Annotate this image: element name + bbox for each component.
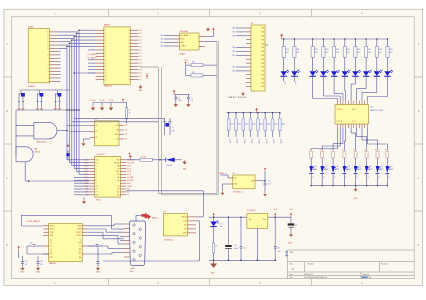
svg-text:B: B [418,109,420,113]
svg-text:C11: C11 [244,248,247,250]
svg-text:File:: File: [290,277,294,279]
svg-text:R2OUT: R2OUT [50,229,55,231]
svg-text:2: 2 [96,168,97,170]
svg-text:T1: T1 [96,192,98,194]
svg-text:7: 7 [96,183,97,185]
svg-text:D17: D17 [390,166,393,168]
svg-text:DB7: DB7 [232,55,235,57]
svg-text:10: 10 [47,48,49,50]
svg-text:D: D [6,243,8,247]
svg-text:R20: R20 [309,150,312,152]
svg-text:R18: R18 [379,49,382,51]
svg-text:XL: XL [96,189,98,191]
svg-text:Y1: Y1 [172,127,174,129]
svg-text:R23: R23 [342,150,345,152]
svg-text:P11: P11 [125,130,128,132]
svg-text:P2_5: P2_5 [84,174,88,176]
svg-text:X2: X2 [86,195,88,197]
svg-text:P3_1TXD: P3_1TXD [127,162,135,164]
svg-text:A: A [418,42,420,46]
svg-text:Q1 855: Q1 855 [272,139,274,144]
svg-text:P10: P10 [139,30,142,32]
svg-text:+12V: +12V [183,60,188,62]
svg-text:D8: D8 [118,180,120,182]
svg-text:B35: B35 [262,86,265,88]
svg-text:GND: GND [96,271,101,273]
svg-text:P3_3: P3_3 [127,168,131,170]
svg-text:P10: P10 [125,125,128,127]
svg-text:RAM128: RAM128 [104,85,113,88]
svg-text:S: S [19,90,20,92]
svg-text:L2: L2 [317,70,319,72]
svg-text:2YW: 2YW [380,169,384,171]
svg-text:D5: D5 [251,23,253,25]
svg-text:DB0: DB0 [232,28,235,30]
svg-text:C5 10u: C5 10u [109,100,114,102]
svg-text:B34: B34 [262,82,265,84]
svg-text:16: 16 [105,79,107,81]
svg-text:C6: C6 [178,97,180,99]
svg-text:2YW: 2YW [358,169,362,171]
svg-text:104: 104 [268,184,271,186]
svg-text:L1: L1 [298,70,300,72]
svg-text:A: A [6,42,8,46]
svg-text:P3_6WR: P3_6WR [127,177,134,179]
svg-text:P11: P11 [139,60,142,62]
svg-text:X2: X2 [127,195,129,197]
svg-text:74HC04: 74HC04 [34,152,40,154]
svg-text:2013-01-21: 2013-01-21 [304,274,313,276]
svg-text:E6A16: E6A16 [180,52,186,55]
svg-text:5: 5 [48,65,49,67]
svg-text:R15: R15 [347,49,350,51]
svg-text:RAM12: RAM12 [104,24,112,27]
svg-text:RST: RST [115,134,118,136]
svg-text:X1: X1 [127,192,129,194]
svg-text:12: 12 [105,66,107,68]
svg-text:B33: B33 [262,78,265,80]
svg-text:C1+: C1+ [50,246,53,248]
svg-text:R16: R16 [357,49,360,51]
svg-text:B30: B30 [262,28,265,30]
svg-text:C9: C9 [268,180,270,182]
svg-text:U7: U7 [95,119,97,121]
svg-text:C7: C7 [191,97,193,99]
svg-text:C13: C13 [25,261,28,263]
svg-text:L8: L8 [381,70,383,72]
svg-text:P3_7RD: P3_7RD [127,180,134,182]
svg-text:R26: R26 [375,150,378,152]
svg-text:XP: XP [96,186,98,188]
svg-text:COM1: COM1 [130,268,135,270]
svg-text:B34: B34 [262,43,265,45]
svg-text:R13: R13 [325,49,328,51]
svg-text:2: 2 [48,74,49,76]
svg-text:DB0: DB0 [160,35,163,37]
svg-text:L0: L0 [288,70,290,72]
svg-text:C2+: C2+ [50,243,53,245]
svg-text:DB9: DB9 [130,271,133,273]
svg-text:L9: L9 [391,70,393,72]
svg-text:P3_2: P3_2 [127,165,131,167]
svg-text:L16: L16 [283,82,285,85]
svg-text:B31: B31 [262,71,265,73]
svg-text:510: 510 [390,52,393,54]
svg-text:11: 11 [105,63,107,65]
svg-text:P12: P12 [139,36,142,38]
svg-text:Q1 855: Q1 855 [243,139,245,144]
svg-text:D6: D6 [163,212,165,214]
svg-text:1: 1 [96,165,97,167]
svg-text:L6: L6 [359,70,361,72]
svg-text:510: 510 [368,52,371,54]
svg-text:510: 510 [296,52,299,54]
svg-text:3: 3 [96,171,97,173]
svg-text:T2OUT: T2OUT [76,235,81,237]
svg-text:DB2: DB2 [160,42,163,44]
svg-text:C8: C8 [295,224,297,226]
svg-text:MAX7219 (DIP): MAX7219 (DIP) [370,109,384,112]
svg-text:C10: C10 [234,245,237,247]
svg-text:510: 510 [336,52,339,54]
svg-text:GND: GND [211,273,216,275]
svg-text:Drawn: Drawn [362,277,367,279]
svg-text:U2 7805L1: U2 7805L1 [247,210,256,212]
svg-text:P14: P14 [139,69,142,71]
svg-text:P13: P13 [139,40,142,42]
svg-text:0: 0 [48,81,49,83]
svg-text:7: 7 [48,58,49,60]
svg-text:MAX232: MAX232 [49,262,56,265]
svg-text:DB5: DB5 [232,47,235,49]
svg-text:B32: B32 [262,36,265,38]
svg-text:R11: R11 [192,62,195,64]
svg-text:A4: A4 [292,267,294,270]
svg-text:2YW: 2YW [336,169,340,171]
svg-text:R27: R27 [385,150,388,152]
svg-text:P10: P10 [139,56,142,58]
svg-text:C14: C14 [40,261,43,263]
svg-text:6: 6 [48,61,49,63]
svg-text:C12: C12 [277,248,280,250]
svg-text:B37: B37 [262,55,265,57]
svg-text:C: C [418,176,420,180]
svg-text:100uF: 100uF [234,248,238,250]
svg-text:P0_7(AD7): P0_7(AD7) [88,57,97,60]
svg-text:D7: D7 [233,173,235,175]
svg-text:T2IN: T2IN [50,235,53,237]
svg-text:R11: R11 [296,49,299,51]
svg-text:R2 10K: R2 10K [141,157,147,159]
svg-text:89C52: 89C52 [96,199,101,201]
svg-text:DB1: DB1 [160,39,163,41]
svg-text:D13: D13 [347,166,350,168]
svg-text:RST: RST [85,192,88,194]
svg-text:D12: D12 [336,166,339,168]
svg-text:8550: 8550 [260,124,264,126]
svg-text:GND: GND [21,271,26,273]
svg-text:B39: B39 [262,63,265,65]
svg-text:510: 510 [315,52,318,54]
svg-text:P13: P13 [125,139,128,141]
svg-text:R10: R10 [286,49,289,51]
svg-text:18B20_2: 18B20_2 [219,173,226,175]
svg-text:S G V: S G V [352,109,356,111]
svg-text:L37: L37 [117,189,120,191]
svg-text:510: 510 [379,52,382,54]
svg-text:1N4: 1N4 [220,226,223,228]
svg-text:510: 510 [286,52,289,54]
svg-text:P17: P17 [139,79,142,81]
svg-text:P15: P15 [139,46,142,48]
svg-text:R1: R1 [129,110,131,112]
svg-text:Size: Size [290,263,294,265]
svg-text:CLK: CLK [115,125,118,127]
svg-text:8: 8 [48,55,49,57]
svg-text:P2_2: P2_2 [84,165,88,167]
svg-text:P14: P14 [139,43,142,45]
svg-text:P0_0(AD0): P0_0(AD0) [88,53,97,56]
svg-text:D14: D14 [358,166,361,168]
svg-text:DB3: DB3 [160,46,163,48]
svg-text:8550: 8550 [282,124,286,126]
svg-text:L7: L7 [370,70,372,72]
svg-text:R24: R24 [353,150,356,152]
svg-text:P3_5: P3_5 [127,174,131,176]
svg-text:V+: V+ [79,246,81,248]
svg-text:R17: R17 [368,49,371,51]
svg-text:P16: P16 [139,50,142,52]
svg-text:2YW: 2YW [325,169,329,171]
svg-text:U3 SN_MAX232: U3 SN_MAX232 [27,220,41,223]
svg-text:510: 510 [357,52,360,54]
svg-text:VDD18: VDD18 [181,217,186,219]
svg-text:LS1: LS1 [96,162,99,164]
svg-text:D11: D11 [325,166,328,168]
svg-text:P2_4: P2_4 [84,171,88,173]
svg-text:11: 11 [47,45,49,47]
svg-text:P2_7: P2_7 [84,180,88,182]
svg-text:D15: D15 [369,166,372,168]
svg-text:10uF: 10uF [277,251,281,253]
svg-text:DB2: DB2 [232,67,235,69]
svg-text:RD E: RD E [181,39,185,41]
svg-text:B36: B36 [262,51,265,53]
svg-text:14: 14 [47,35,49,37]
svg-text:Q1 855: Q1 855 [228,139,230,144]
svg-text:14: 14 [105,73,107,75]
svg-text:V+: V+ [79,254,81,256]
svg-text:P11: P11 [139,33,142,35]
svg-text:T1OUT: T1OUT [76,232,81,234]
svg-text:Q1 855: Q1 855 [258,139,260,144]
svg-text:DB1: DB1 [232,32,235,34]
svg-text:DB2: DB2 [232,35,235,37]
svg-text:Revision: Revision [381,263,388,265]
svg-text:T1IN: T1IN [50,232,53,234]
svg-text:P15: P15 [139,73,142,75]
svg-text:D10: D10 [314,166,317,168]
svg-text:X2: X2 [96,137,98,139]
svg-text:SD2: SD2 [117,192,120,194]
svg-text:Q1 855: Q1 855 [236,139,238,144]
svg-text:L31: L31 [117,186,120,188]
svg-text:D: D [418,243,420,247]
svg-text:Q1 855: Q1 855 [265,139,267,144]
svg-text:Vin: Vin [249,219,251,221]
svg-text:X0: X0 [96,125,98,127]
svg-text:D D D D: D D D D [337,121,344,123]
svg-text:Sheet of: Sheet of [363,273,370,276]
svg-text:15: 15 [105,76,107,78]
svg-text:L4: L4 [338,70,340,72]
svg-text:Number: Number [308,263,315,265]
svg-text:RAM16: RAM16 [28,85,36,88]
svg-text:18B20_1: 18B20_1 [152,218,159,220]
svg-text:8550: 8550 [267,124,271,126]
svg-text:U5: U5 [370,107,372,109]
svg-text:74HC04 SO4: 74HC04 SO4 [36,141,47,143]
svg-text:P12: P12 [125,134,128,136]
svg-text:X1: X1 [96,131,98,133]
svg-text:DB6: DB6 [232,51,235,53]
svg-text:P16: P16 [139,76,142,78]
svg-text:Date:: Date: [290,273,295,276]
svg-text:L16: L16 [294,82,296,85]
svg-text:2YW: 2YW [369,169,373,171]
svg-text:P17: P17 [139,53,142,55]
svg-text:P2_3: P2_3 [84,168,88,170]
svg-text:104: 104 [191,100,194,102]
svg-text:P12: P12 [139,63,142,65]
svg-text:D16: D16 [380,166,383,168]
svg-text:D17: D17 [220,223,223,225]
svg-text:USB BT T P416 1A: USB BT T P416 1A [228,96,246,99]
svg-text:RAM1: RAM1 [28,25,34,28]
svg-text:2YW: 2YW [314,169,318,171]
svg-text:8550: 8550 [274,124,278,126]
svg-text:12: 12 [47,41,49,43]
svg-text:3: 3 [48,71,49,73]
svg-text:B31: B31 [262,32,265,34]
svg-text:C16: C16 [30,242,33,244]
svg-text:DQ1: DQ1 [183,221,186,223]
svg-text:U1 89C52: U1 89C52 [96,154,105,156]
svg-text:DB3: DB3 [232,71,235,73]
svg-text:4: 4 [96,174,97,176]
svg-text:C15: C15 [100,245,103,247]
svg-text:2YW: 2YW [390,169,394,171]
svg-text:13: 13 [47,38,49,40]
svg-text:9: 9 [48,51,49,53]
svg-text:DS18B20_1: DS18B20_1 [164,239,174,241]
svg-text:510: 510 [325,52,328,54]
svg-text:R14: R14 [336,49,339,51]
svg-text:B35: B35 [262,47,265,49]
svg-text:C: C [6,176,8,180]
svg-text:13: 13 [105,69,107,71]
svg-text:L5: L5 [349,70,351,72]
svg-text:2YW: 2YW [347,169,351,171]
svg-text:GND: GND [139,90,144,92]
svg-text:R25: R25 [364,150,367,152]
svg-text:R2IN: R2IN [78,229,81,231]
svg-text:Q1 855: Q1 855 [280,139,282,144]
svg-text:R1IN: R1IN [78,226,81,228]
svg-text:1: 1 [48,78,49,80]
svg-text:C3 10u: C3 10u [91,100,96,102]
svg-text:B33: B33 [262,39,265,41]
svg-text:8550: 8550 [238,124,242,126]
svg-text:U6 E6448: U6 E6448 [180,31,188,33]
svg-text:DS18B20_2: DS18B20_2 [233,191,243,193]
svg-text:R19: R19 [390,49,393,51]
svg-text:10: 10 [105,60,107,62]
svg-text:104: 104 [40,264,43,266]
svg-text:P2_0: P2_0 [84,160,88,162]
svg-text:C4 10u: C4 10u [100,100,105,102]
svg-text:8550: 8550 [245,124,249,126]
svg-text:15: 15 [47,32,49,34]
svg-text:C1+: C1+ [50,254,53,256]
svg-text:R22: R22 [331,150,334,152]
svg-text:1K: 1K [129,113,131,115]
svg-text:P2_6: P2_6 [84,177,88,179]
svg-text:104: 104 [25,264,28,266]
svg-text:1N4148: 1N4148 [167,165,173,167]
svg-text:1 8 2 4 D: 1 8 2 4 D [337,109,344,111]
svg-text:B32: B32 [262,75,265,77]
svg-text:R21: R21 [320,150,323,152]
svg-text:P3_4: P3_4 [127,171,131,173]
svg-text:B30: B30 [262,67,265,69]
svg-text:B: B [6,109,8,113]
svg-text:R12: R12 [192,72,195,74]
svg-text:GND: GND [36,271,41,273]
svg-text:10uF: 10uF [178,100,182,102]
svg-text:6: 6 [96,180,97,182]
svg-text:5: 5 [96,177,97,179]
svg-text:8550: 8550 [252,124,256,126]
svg-text:R1OUT: R1OUT [50,226,55,228]
svg-text:R12: R12 [315,49,318,51]
svg-text:4: 4 [48,68,49,70]
svg-text:8550: 8550 [230,124,234,126]
svg-text:L3: L3 [327,70,329,72]
svg-text:SD+: SD+ [117,171,120,173]
svg-text:510: 510 [347,52,350,54]
svg-text:B38: B38 [262,59,265,61]
svg-text:P2_1: P2_1 [84,162,88,164]
